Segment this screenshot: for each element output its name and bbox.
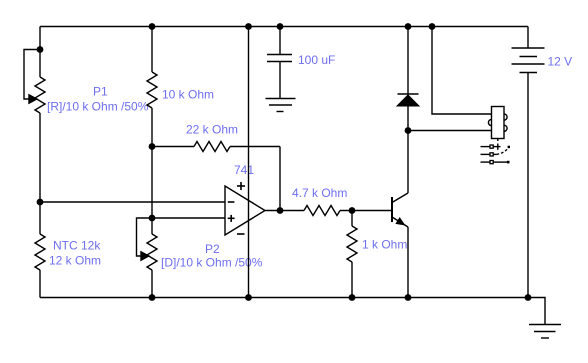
- transistor Q1 NPN: [392, 193, 408, 227]
- wire collector to diode node: [407, 131, 409, 194]
- op-amp U1 741: [225, 182, 265, 235]
- resistor 1 k Ohm: [347, 211, 357, 298]
- wire non-inverting input: [152, 217, 225, 219]
- svg-text:P1: P1: [93, 85, 108, 99]
- potentiometer P1: [24, 50, 45, 114]
- node top rail op-amp V+: [245, 23, 252, 30]
- diode D1 flyback: [398, 94, 419, 106]
- wire op-amp output: [265, 210, 304, 212]
- thermistor NTC 12k: [35, 202, 45, 298]
- relay RL1 coil: [488, 107, 507, 139]
- svg-text:12 k Ohm: 12 k Ohm: [49, 254, 101, 268]
- node P1 wiper top junction: [37, 46, 44, 53]
- svg-text:12 V: 12 V: [548, 55, 573, 69]
- svg-text:4.7 k Ohm: 4.7 k Ohm: [292, 186, 347, 200]
- node output / feedback junction: [277, 207, 284, 214]
- wire 10k junction down to P2 top: [151, 147, 153, 219]
- wire 4.7k to transistor base: [340, 210, 392, 212]
- node top rail relay: [429, 23, 436, 30]
- node bottom rail P2: [149, 294, 156, 301]
- wire 0V rail to ground stub: [528, 298, 545, 325]
- node bottom rail battery: [525, 294, 532, 301]
- wire 0V bottom rail: [40, 297, 528, 299]
- wire diode anode to node: [407, 106, 409, 131]
- battery 12V: [512, 27, 545, 73]
- node top rail capacitor: [277, 23, 284, 30]
- svg-text:100 uF: 100 uF: [298, 53, 335, 67]
- wire inverting input: [40, 201, 225, 203]
- relay RL1 switch contacts: [481, 139, 511, 164]
- svg-text:22 k Ohm: 22 k Ohm: [186, 123, 238, 137]
- node bottom rail 1k: [349, 294, 356, 301]
- node 10k / 22k junction: [149, 143, 156, 150]
- ground main: [529, 325, 561, 339]
- potentiometer P2: [137, 218, 158, 298]
- node top rail 10k: [149, 23, 156, 30]
- svg-text:741: 741: [234, 163, 254, 177]
- svg-text:1 k Ohm: 1 k Ohm: [362, 238, 407, 252]
- svg-text:[R]/10 k Ohm /50%: [R]/10 k Ohm /50%: [47, 100, 149, 114]
- node base / 1k junction: [349, 207, 356, 214]
- capacitor C1 100uF: [267, 27, 292, 99]
- resistor 10 k Ohm: [147, 27, 157, 147]
- svg-text:[D]/10 k Ohm /50%: [D]/10 k Ohm /50%: [161, 256, 263, 270]
- ground for capacitor: [266, 99, 296, 112]
- node inverting input junction: [37, 199, 44, 206]
- wire relay coil feed from +12V: [432, 27, 492, 115]
- node P2 top / non-inverting junction: [149, 215, 156, 222]
- resistor 4.7 k Ohm: [304, 206, 340, 216]
- wire feedback from 22k to output: [279, 147, 281, 211]
- wire op-amp power rails vertical: [248, 27, 250, 298]
- node bottom rail op-amp V-: [245, 294, 252, 301]
- resistor 22 k Ohm: [152, 142, 280, 152]
- svg-text:10 k Ohm: 10 k Ohm: [162, 88, 214, 102]
- wire emitter to 0V rail: [407, 227, 409, 298]
- svg-text:P2: P2: [205, 242, 220, 256]
- wire +12V top rail: [40, 26, 528, 28]
- svg-text:NTC 12k: NTC 12k: [53, 239, 101, 253]
- node top rail diode: [405, 23, 412, 30]
- node bottom rail emitter: [405, 294, 412, 301]
- wire battery negative to 0V rail: [527, 73, 529, 298]
- node collector / diode / relay junction: [405, 127, 412, 134]
- wire P1 bottom to inverting node: [39, 113, 41, 202]
- wire left branch top stem: [39, 27, 41, 78]
- wire relay coil to collector node: [408, 130, 492, 132]
- wire diode cathode to +12V rail: [407, 27, 409, 95]
